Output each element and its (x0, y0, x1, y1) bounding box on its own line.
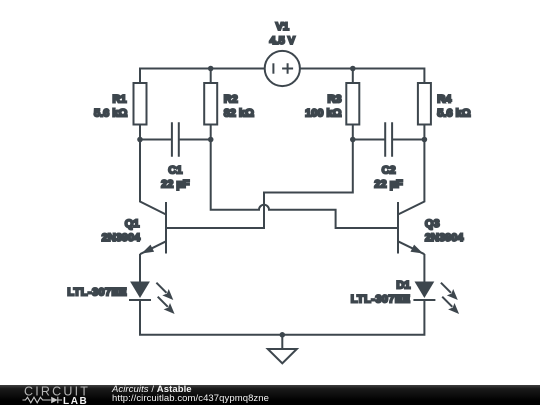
wire Q3 emitter drop (423, 254, 425, 282)
svg-text:Q3: Q3 (425, 218, 440, 230)
wire Q1 collector drop (140, 140, 166, 215)
resistor R3 (346, 83, 359, 125)
LED D2 (left) (129, 282, 151, 301)
svg-text:D1: D1 (396, 279, 410, 291)
svg-text:LAB: LAB (63, 396, 88, 405)
svg-text:2N3904: 2N3904 (425, 232, 464, 244)
LED right light arrows (441, 283, 459, 314)
resistor R4 (418, 83, 431, 125)
LED D1 (right) (413, 282, 435, 301)
svg-text:Q1: Q1 (125, 218, 140, 230)
svg-text:4.5 V: 4.5 V (269, 35, 295, 47)
wire C2 left lead (353, 139, 385, 141)
node R2-top junction (208, 66, 214, 72)
wire R4 bottom (423, 125, 425, 140)
wire R2 bottom (210, 125, 212, 140)
resistor R2 (204, 83, 217, 125)
svg-text:R1: R1 (112, 94, 126, 106)
wire top rail right (300, 69, 424, 84)
wire C1 right lead (179, 139, 210, 141)
svg-text:R4: R4 (437, 94, 452, 106)
wire C1 left lead (140, 139, 171, 141)
svg-text:5.6 kΩ: 5.6 kΩ (437, 107, 470, 119)
wire R2 top stub (210, 69, 212, 84)
transistor Q3 (398, 202, 424, 254)
svg-text:2N3904: 2N3904 (102, 232, 141, 244)
wire R2 bottom to Q3 base with hop (net B) (211, 140, 398, 229)
CircuitLab logo (21, 385, 99, 405)
wire Q1 emitter drop (139, 254, 141, 282)
wire top rail left (140, 69, 265, 84)
svg-text:C1: C1 (168, 165, 182, 177)
ground (268, 335, 297, 364)
svg-text:V1: V1 (276, 21, 289, 33)
svg-text:82 kΩ: 82 kΩ (224, 107, 254, 119)
node R2-bottom junction (208, 137, 214, 143)
wire R1 bottom (139, 125, 141, 140)
capacitor C2 (385, 122, 392, 157)
svg-text:R2: R2 (224, 94, 238, 106)
svg-text:LTL-307EE: LTL-307EE (67, 286, 127, 298)
footer text (112, 385, 269, 403)
node R3-bottom junction (350, 137, 356, 143)
node R4-bottom junction (422, 137, 428, 143)
LED left light arrows (156, 283, 174, 314)
svg-text:5.6 kΩ: 5.6 kΩ (94, 107, 127, 119)
resistor R1 (134, 83, 147, 125)
footer bar (0, 385, 540, 406)
svg-text:R3: R3 (327, 94, 341, 106)
transistor Q1 (140, 202, 166, 254)
node ground junction (280, 332, 286, 338)
node R1-bottom junction (137, 137, 143, 143)
wire R3 bottom (352, 125, 354, 140)
node R3-top junction (350, 66, 356, 72)
svg-text:C2: C2 (382, 165, 396, 177)
wire Q3 collector drop (398, 140, 424, 215)
svg-text:100 kΩ: 100 kΩ (305, 107, 342, 119)
wire R3 top stub (352, 69, 354, 84)
wire Q1 base to R3 bottom (net A) (166, 140, 353, 229)
svg-text:22 µF: 22 µF (161, 178, 190, 190)
capacitor C1 (172, 122, 179, 157)
svg-text:LTL-307EE: LTL-307EE (351, 293, 411, 305)
wire C2 right lead (393, 139, 425, 141)
wire bottom rail (140, 300, 424, 335)
voltage source V1 (265, 51, 300, 86)
svg-text:22 µF: 22 µF (374, 178, 403, 190)
